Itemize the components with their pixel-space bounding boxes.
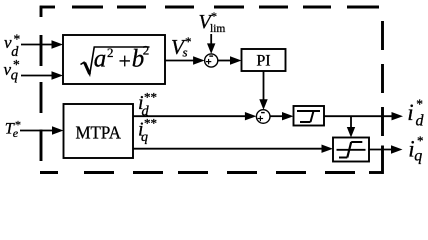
svg-text:+: + [119,49,131,74]
svg-text:d: d [416,113,425,130]
svg-text:*: * [417,133,424,148]
svg-text:lim: lim [210,23,225,35]
svg-text:*: * [211,9,217,23]
svg-text:PI: PI [256,53,270,70]
svg-text:**: ** [144,116,157,131]
svg-text:*: * [185,34,192,49]
svg-text:2: 2 [143,43,150,58]
svg-text:q: q [141,130,148,145]
svg-text:q: q [414,147,422,164]
svg-text:*: * [14,32,21,47]
svg-text:*: * [15,118,21,132]
svg-text:a: a [94,46,107,73]
svg-text:*: * [13,57,20,72]
svg-text:2: 2 [107,45,114,60]
svg-text:MTPA: MTPA [75,123,121,143]
svg-text:**: ** [144,89,157,104]
svg-text:i: i [407,100,413,125]
svg-text:*: * [416,96,423,111]
